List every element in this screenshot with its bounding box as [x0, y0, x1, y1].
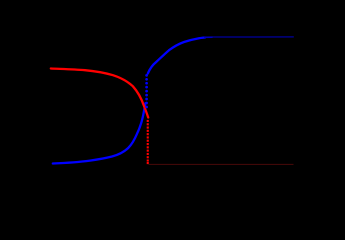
- blue curve solid lower part (flat rising from bottom-left): [53, 103, 146, 163]
- blue navy top asymptote line: [212, 36, 294, 38]
- red curve solid part (descending from flat top-left): [51, 69, 148, 118]
- red faint bottom asymptote line: [149, 163, 294, 165]
- blue fading transition segment: [204, 36, 213, 38]
- blue dotted steep segment (separated markers): [145, 74, 148, 108]
- blue curve solid upper part (steep rise bending to flat top): [148, 38, 205, 74]
- red dotted vertical drop (separated markers): [147, 120, 149, 164]
